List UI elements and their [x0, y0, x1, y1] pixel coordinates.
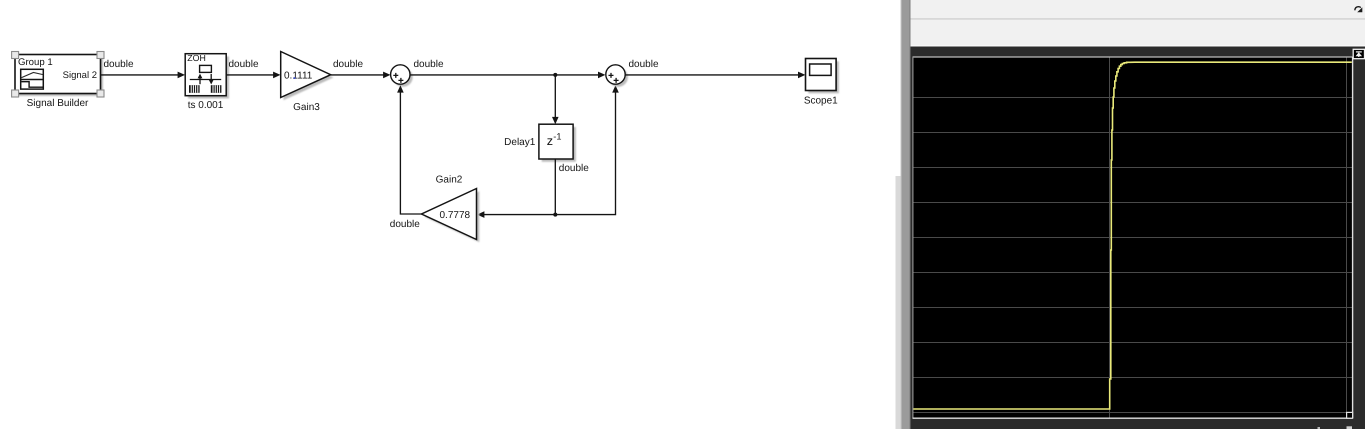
gridline h3 — [913, 167, 1352, 169]
sum Sum2 shadow — [609, 68, 628, 87]
svg-text:double: double — [229, 59, 259, 70]
sum Sum1 circle — [391, 65, 410, 84]
scope toolbar separator — [911, 18, 1365, 20]
wire junction to Sum2 south — [555, 90, 615, 214]
sum Sum1 shadow — [393, 68, 412, 87]
svg-text:double: double — [629, 59, 659, 70]
svg-text:ts 0.001: ts 0.001 — [188, 100, 224, 111]
svg-text:double: double — [104, 59, 134, 70]
sum Sum1 plus south — [398, 78, 403, 83]
sum Sum1 plus west — [393, 73, 398, 78]
svg-text:Scope1: Scope1 — [804, 95, 838, 106]
signal builder icon frame — [21, 69, 44, 89]
signal builder block body — [15, 55, 101, 94]
plot border left — [912, 57, 914, 418]
plot border right — [1352, 57, 1354, 418]
signal builder icon waveform — [22, 73, 44, 78]
gridline v1 — [1109, 57, 1111, 418]
ZOH icon up arrow — [199, 77, 201, 84]
arrowhead into Gain3 — [273, 72, 280, 79]
svg-text:Gain2: Gain2 — [436, 175, 463, 186]
arrowhead into Delay1 — [552, 117, 559, 124]
scope trace step response — [913, 62, 1352, 409]
arrowhead into Sum2 — [598, 72, 605, 79]
selection handle bottom-left — [12, 90, 19, 97]
delay Delay1 block body — [539, 124, 573, 159]
svg-text:double: double — [333, 59, 363, 70]
gain Gain3 shadow — [284, 54, 334, 100]
wire SignalBuilder to ZOH — [101, 74, 179, 76]
scope float button — [1353, 49, 1364, 58]
sum Sum2 circle — [606, 65, 625, 84]
gridline h8 — [913, 342, 1352, 344]
scope dark body — [911, 47, 1365, 430]
svg-text:-1: -1 — [553, 131, 561, 141]
window edge dark line — [909, 0, 911, 429]
scope Scope1 block shadow — [808, 61, 839, 93]
svg-text:ZOH: ZOH — [187, 53, 206, 63]
ZOH icon comb right — [211, 85, 222, 93]
svg-text:Signal Builder: Signal Builder — [27, 98, 89, 109]
wire tap down to Delay1 — [554, 75, 556, 119]
window edge highlight — [900, 0, 902, 429]
svg-text:Gain3: Gain3 — [293, 102, 320, 113]
svg-text:0.1111: 0.1111 — [284, 70, 313, 81]
blue speck artifact — [294, 77, 296, 79]
scope toolbar background — [911, 0, 1365, 46]
plot border top — [913, 56, 1353, 58]
svg-text:z: z — [547, 134, 553, 148]
arrowhead into Sum1 south — [397, 85, 404, 92]
window edge gray bar — [901, 0, 911, 429]
signal builder icon divider — [21, 79, 44, 81]
selection handle top-left — [12, 52, 19, 59]
arrowhead into Sum1 — [383, 72, 390, 79]
scope Scope1 block body — [806, 59, 837, 91]
wire Sum1 to Sum2 — [410, 74, 600, 76]
gridline h7 — [913, 307, 1352, 309]
gridline h4 — [913, 202, 1352, 204]
signal builder SignalBuilder block shadow — [18, 57, 104, 96]
scope plot black area — [913, 57, 1353, 418]
arrowhead into ZOH — [178, 72, 185, 79]
wire Delay1 output down — [554, 159, 556, 215]
arrowhead into Sum2 south — [612, 85, 619, 92]
ZOH icon comb left — [189, 85, 200, 93]
delay Delay1 shadow — [542, 127, 576, 162]
arrowhead into Gain2 — [477, 211, 484, 218]
ZOH icon baseline — [190, 79, 221, 81]
svg-text:Delay1: Delay1 — [504, 137, 536, 148]
junction node feedback — [553, 213, 557, 217]
sum Sum2 plus south — [614, 78, 619, 83]
junction node at Delay1 tap — [553, 73, 557, 77]
gridline v2 — [1346, 57, 1348, 418]
gain Gain3 triangle — [281, 52, 331, 98]
scrollbar corner box — [1347, 412, 1353, 418]
gridline h1 — [913, 97, 1352, 99]
ZOH icon sample rect — [200, 65, 212, 72]
wire Sum2 to Scope1 — [625, 74, 799, 76]
gridline h2 — [913, 132, 1352, 134]
arrowhead into Scope1 — [798, 72, 805, 79]
svg-text:Signal 2: Signal 2 — [63, 70, 97, 81]
gain Gain2 shadow — [424, 191, 479, 242]
gridline h9 — [913, 377, 1352, 379]
selection handle top-right — [97, 52, 104, 59]
gridline h5 — [913, 237, 1352, 239]
selection handle bottom-right — [97, 90, 104, 97]
svg-text:Group 1: Group 1 — [18, 57, 53, 68]
ZOH block shadow — [188, 57, 229, 99]
ZOH block body — [185, 54, 226, 96]
scope toolbar dock icon — [1355, 7, 1363, 13]
svg-text:0.7778: 0.7778 — [440, 210, 471, 221]
scope Scope1 screen — [810, 64, 832, 75]
gridline h6 — [913, 272, 1352, 274]
sum Sum2 plus west — [609, 73, 614, 78]
wire ZOH to Gain3 — [227, 74, 275, 76]
plot border bottom — [913, 417, 1353, 419]
svg-text:double: double — [414, 59, 444, 70]
status bar mark left — [1318, 427, 1321, 429]
svg-text:double: double — [390, 219, 420, 230]
wire Gain3 to Sum1 — [331, 74, 385, 76]
gridline h10 — [913, 412, 1352, 414]
gain Gain2 triangle — [422, 189, 477, 240]
editor scrollbar track — [896, 176, 901, 429]
svg-text:double: double — [559, 163, 589, 174]
scope float button arrow — [1356, 52, 1362, 57]
ZOH icon down arrow — [210, 74, 212, 81]
wire Gain2 to Sum1 south — [400, 90, 421, 214]
signal builder icon step trace — [21, 82, 43, 88]
wire junction to Gain2 — [483, 214, 555, 216]
status bar mark right — [1347, 426, 1353, 429]
